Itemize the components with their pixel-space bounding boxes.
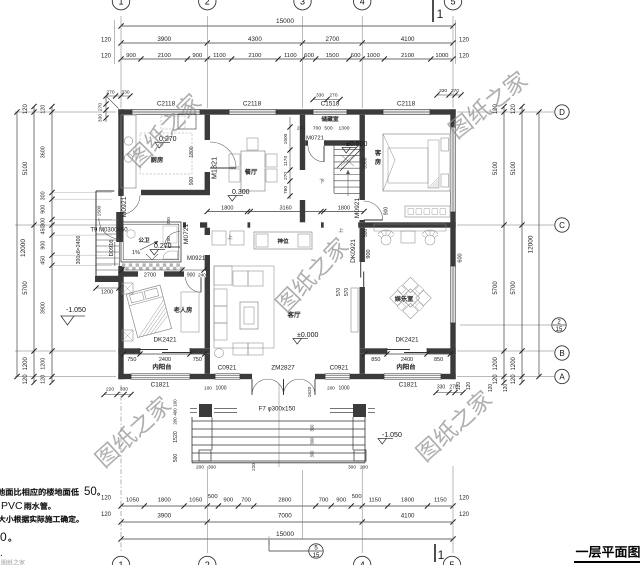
svg-text:50: 50 xyxy=(84,486,97,498)
elevation 0.270 kitchen xyxy=(155,136,177,148)
label DK2421 right xyxy=(395,337,419,344)
svg-text:2100: 2100 xyxy=(158,53,172,59)
svg-text:15000: 15000 xyxy=(276,18,294,25)
svg-text:500: 500 xyxy=(352,494,363,500)
svg-text:1800: 1800 xyxy=(338,205,350,211)
grid extension lines left xyxy=(15,112,116,377)
svg-text:2: 2 xyxy=(205,0,210,6)
bubble column 1 top xyxy=(112,0,129,10)
svg-text:15: 15 xyxy=(313,553,320,559)
slope mark bathroom xyxy=(132,241,158,260)
svg-text:780: 780 xyxy=(283,186,289,194)
svg-text:300: 300 xyxy=(41,218,47,227)
dim total 15000 top xyxy=(118,18,455,29)
svg-text:±0.000: ±0.000 xyxy=(346,141,367,148)
svg-text:120: 120 xyxy=(488,384,494,393)
stair main xyxy=(334,143,361,196)
svg-text:300: 300 xyxy=(348,465,356,471)
svg-text:850: 850 xyxy=(434,357,443,363)
dim steps 300 200 right xyxy=(348,465,368,471)
svg-text:1200: 1200 xyxy=(101,290,113,296)
svg-text:1000: 1000 xyxy=(435,53,449,59)
svg-text:120: 120 xyxy=(101,496,112,502)
dim chain left outer xyxy=(23,104,37,385)
svg-text:120: 120 xyxy=(511,104,517,115)
svg-text:M0721: M0721 xyxy=(306,136,324,142)
svg-text:1000: 1000 xyxy=(215,386,226,392)
bubble detail 5/15 bottom xyxy=(269,540,323,559)
dim total 15000 bottom xyxy=(118,531,455,542)
stair label down xyxy=(320,179,325,184)
door M0921 side entry xyxy=(99,218,120,239)
door DK2421 entertainment slider xyxy=(387,348,427,354)
svg-text:M0721: M0721 xyxy=(183,224,190,244)
window C1518 storage top xyxy=(313,109,347,114)
svg-text:DK2421: DK2421 xyxy=(153,337,177,344)
svg-text:PVC: PVC xyxy=(1,500,23,512)
svg-text:120: 120 xyxy=(101,38,112,44)
svg-text:C0921: C0921 xyxy=(330,365,349,372)
svg-text:1520: 1520 xyxy=(173,431,179,443)
window C2118 kitchen top xyxy=(132,109,200,114)
svg-text:700: 700 xyxy=(241,497,252,503)
svg-text:270: 270 xyxy=(451,88,459,94)
dim 330 270 corner BR xyxy=(433,385,465,396)
door M0721 bathroom xyxy=(165,232,181,248)
svg-text:330: 330 xyxy=(437,385,446,391)
label D0916 stair door xyxy=(109,239,115,256)
svg-text:1100: 1100 xyxy=(284,53,297,59)
grid extension lines bottom xyxy=(121,384,453,553)
wall B line right balcony xyxy=(360,348,456,353)
furniture guest bed wardrobe xyxy=(383,134,450,217)
svg-text:120: 120 xyxy=(101,54,112,60)
svg-text:500: 500 xyxy=(173,454,179,463)
dim entertainment 900 xyxy=(363,229,372,259)
dim door piers xyxy=(204,386,350,392)
wall column axis 4 xyxy=(360,115,365,374)
svg-text:200: 200 xyxy=(196,465,204,471)
svg-text:1170: 1170 xyxy=(283,156,289,167)
svg-text:300: 300 xyxy=(310,424,315,432)
svg-text:2400: 2400 xyxy=(159,357,171,363)
bubble column 5 top xyxy=(444,0,461,10)
svg-text:1150: 1150 xyxy=(434,497,447,503)
svg-text:M0921: M0921 xyxy=(354,198,361,218)
svg-text:1200: 1200 xyxy=(511,356,517,370)
svg-text:3600: 3600 xyxy=(41,146,47,158)
dim chain right inner xyxy=(493,104,506,385)
note line 5 xyxy=(0,548,3,559)
svg-text:15000: 15000 xyxy=(276,531,294,538)
svg-text:1300: 1300 xyxy=(339,126,350,132)
dim row 3900/4300/2700/4100 top xyxy=(101,36,470,46)
svg-text:7000: 7000 xyxy=(278,513,292,520)
svg-text:D: D xyxy=(559,108,565,117)
svg-text:1620: 1620 xyxy=(307,386,313,397)
label C2118 top xyxy=(157,101,176,108)
svg-text:C1518: C1518 xyxy=(321,101,340,108)
grid extension lines right xyxy=(457,112,554,377)
svg-text:3900: 3900 xyxy=(157,36,171,43)
note bottom edge fragment xyxy=(2,559,25,565)
svg-text:900: 900 xyxy=(41,205,47,214)
svg-text:900: 900 xyxy=(366,249,372,258)
svg-text:1800: 1800 xyxy=(401,497,415,503)
svg-text:2: 2 xyxy=(205,560,210,565)
wall exterior right xyxy=(450,109,455,379)
svg-text:270: 270 xyxy=(98,103,104,111)
room label balcony left xyxy=(153,364,171,370)
svg-text:4: 4 xyxy=(360,560,365,565)
svg-text:D0916: D0916 xyxy=(109,239,115,256)
watermark bottom-right xyxy=(414,387,495,463)
wall column axis 2 xyxy=(205,115,210,374)
dim interior 850 2400 850 xyxy=(362,351,453,362)
svg-text:5: 5 xyxy=(450,0,455,6)
svg-text:300: 300 xyxy=(208,465,216,471)
svg-text:1%: 1% xyxy=(132,250,140,256)
svg-text:120: 120 xyxy=(23,374,29,385)
elevation 0.000 living xyxy=(293,332,318,344)
label 300x8 stair xyxy=(76,236,82,265)
svg-text:1800: 1800 xyxy=(189,146,195,157)
fixtures bathroom xyxy=(127,217,178,259)
svg-text:3900: 3900 xyxy=(157,513,171,520)
svg-text:270: 270 xyxy=(329,93,337,99)
window C1821 balcony left xyxy=(131,374,190,379)
svg-text:4: 4 xyxy=(360,0,365,6)
svg-text:±0.000: ±0.000 xyxy=(297,332,318,339)
furniture entertainment table xyxy=(374,224,446,319)
svg-text:M0921: M0921 xyxy=(187,256,206,262)
svg-text:2700: 2700 xyxy=(326,36,340,43)
svg-text:1: 1 xyxy=(437,7,444,21)
svg-text:2100: 2100 xyxy=(401,53,415,59)
window C1821 balcony right xyxy=(384,374,441,379)
svg-text:4100: 4100 xyxy=(401,513,415,520)
svg-text:3900: 3900 xyxy=(41,302,47,314)
svg-text:1100: 1100 xyxy=(213,53,226,59)
svg-text:1050: 1050 xyxy=(126,497,140,503)
svg-text:300x8=2400: 300x8=2400 xyxy=(76,236,82,265)
wall front A line xyxy=(118,374,455,379)
svg-text:2400: 2400 xyxy=(401,357,413,363)
svg-text:400: 400 xyxy=(173,408,178,416)
note line 3 xyxy=(0,515,79,522)
dim row detail bottom xyxy=(101,494,470,509)
svg-text:240: 240 xyxy=(198,272,206,277)
bubble row D right xyxy=(555,105,569,119)
dim interior 1200 stair xyxy=(93,285,121,295)
svg-text:1800: 1800 xyxy=(158,497,172,503)
svg-text:600: 600 xyxy=(304,53,315,59)
svg-text:570: 570 xyxy=(344,288,350,297)
window C2118 entertainment right xyxy=(450,266,455,323)
svg-text:240: 240 xyxy=(297,126,305,132)
watermark center xyxy=(273,235,350,314)
svg-text:200: 200 xyxy=(166,217,171,225)
grid extension lines top xyxy=(114,16,455,108)
svg-text:300: 300 xyxy=(310,437,315,445)
window C2118 guest top xyxy=(383,109,430,114)
dim total 12000 right xyxy=(528,109,542,379)
label DK0921 xyxy=(350,239,357,263)
svg-text:120: 120 xyxy=(493,374,499,385)
label M0721 bath xyxy=(183,224,190,244)
svg-text:900: 900 xyxy=(223,497,234,503)
svg-text:850: 850 xyxy=(371,357,380,363)
svg-text:900: 900 xyxy=(41,241,47,250)
svg-text:330: 330 xyxy=(316,93,324,99)
door ZM2827 main entrance xyxy=(252,379,315,395)
svg-text:B: B xyxy=(559,349,564,358)
svg-text:2700: 2700 xyxy=(144,272,156,278)
section mark 1 top xyxy=(433,0,444,22)
stair bay bottom block xyxy=(95,276,121,282)
svg-text:2100: 2100 xyxy=(248,53,262,59)
svg-text:120: 120 xyxy=(459,38,470,44)
svg-text:270: 270 xyxy=(449,385,458,391)
room label elder xyxy=(174,307,192,313)
svg-text:1: 1 xyxy=(118,0,123,6)
porch columns xyxy=(190,404,375,461)
svg-text:.: . xyxy=(0,548,3,559)
door M0921 corridor-elder xyxy=(186,277,202,293)
dim 120 corner right xyxy=(488,384,509,393)
watermark top-left xyxy=(125,90,203,168)
elevation -1.050 porch xyxy=(378,432,402,444)
svg-text:-1.050: -1.050 xyxy=(382,432,402,439)
landing side entry xyxy=(96,219,119,221)
label C0921 xyxy=(330,365,349,372)
label F7 porch xyxy=(259,406,296,413)
label M1821 xyxy=(210,157,219,179)
bubble column 4 top xyxy=(354,0,371,10)
room label kitchen xyxy=(151,157,163,163)
dim 220 330 corner BL xyxy=(101,387,133,398)
svg-text:3160: 3160 xyxy=(279,205,291,211)
furniture living sofa xyxy=(212,231,358,358)
svg-text:M0921: M0921 xyxy=(121,196,128,217)
svg-text:200: 200 xyxy=(360,465,368,471)
svg-text:330: 330 xyxy=(120,387,128,393)
wall storage bottom xyxy=(305,140,359,145)
svg-text:900: 900 xyxy=(189,177,195,186)
title first floor plan xyxy=(574,546,640,562)
svg-text:270: 270 xyxy=(106,90,114,96)
svg-text:2800: 2800 xyxy=(278,497,292,503)
svg-text:5100: 5100 xyxy=(23,161,29,175)
svg-text:0: 0 xyxy=(0,530,7,544)
stair side bay treads xyxy=(96,234,119,276)
svg-text:900: 900 xyxy=(126,53,137,59)
elevation -1.050 left xyxy=(61,307,86,325)
wall kitchen bottom xyxy=(118,190,210,195)
dim 330 270 top storage xyxy=(310,93,342,103)
dim 330 270 corner TR xyxy=(434,88,463,98)
tile strip bathroom xyxy=(122,263,183,270)
bubble row B right xyxy=(555,346,569,360)
svg-text:300: 300 xyxy=(41,191,47,200)
svg-text:1: 1 xyxy=(118,560,123,565)
svg-text:1050: 1050 xyxy=(189,497,203,503)
svg-text:12000: 12000 xyxy=(20,239,27,257)
svg-text:C: C xyxy=(559,221,565,230)
stair bay outer wall left xyxy=(96,191,121,278)
svg-text:120: 120 xyxy=(23,104,29,115)
svg-text:330: 330 xyxy=(439,88,447,94)
svg-text:1150: 1150 xyxy=(369,497,382,503)
note line 4 xyxy=(0,530,11,544)
svg-text:C1821: C1821 xyxy=(151,382,170,389)
watermark top-right xyxy=(446,68,530,140)
svg-text:220: 220 xyxy=(106,387,114,393)
door hall kitchen xyxy=(121,195,140,214)
svg-text:700: 700 xyxy=(319,497,330,503)
svg-text:600: 600 xyxy=(458,253,464,262)
svg-text:1200: 1200 xyxy=(23,356,29,370)
label C1821 xyxy=(399,382,418,389)
svg-text:120: 120 xyxy=(101,512,112,518)
svg-text:220: 220 xyxy=(251,463,256,471)
dim chain right outer xyxy=(511,104,524,385)
svg-text:270: 270 xyxy=(283,172,289,180)
svg-text:15: 15 xyxy=(556,327,563,333)
detail line 2-15 right xyxy=(460,324,551,326)
svg-text:750: 750 xyxy=(193,357,202,363)
label ZM2827 xyxy=(271,365,295,372)
svg-text:330: 330 xyxy=(121,90,129,96)
label C1821 xyxy=(151,382,170,389)
svg-text:450: 450 xyxy=(41,256,47,265)
window C2118 dining top xyxy=(229,109,276,114)
room label entertainment xyxy=(395,296,413,302)
room label bath xyxy=(139,237,150,242)
section mark 1 bottom xyxy=(435,544,445,562)
bubble detail 2/15 right xyxy=(552,318,566,333)
svg-text:750: 750 xyxy=(127,357,136,363)
svg-text:C0921: C0921 xyxy=(218,365,237,372)
bubble column 2 bottom xyxy=(199,556,216,565)
label M0721 storage xyxy=(306,136,324,142)
label C2118 top xyxy=(243,101,262,108)
svg-text:700: 700 xyxy=(313,126,321,132)
note line 2 xyxy=(1,500,51,512)
svg-text:C2118: C2118 xyxy=(243,101,262,108)
door M0721 storage xyxy=(308,146,324,162)
dim interior C wall row xyxy=(205,205,367,214)
svg-text:1200: 1200 xyxy=(41,358,47,370)
bubble column 2 top xyxy=(199,0,216,10)
svg-text:900: 900 xyxy=(187,272,196,278)
svg-text:5700: 5700 xyxy=(493,281,499,295)
window C2118 guest right xyxy=(450,127,455,212)
wall column axis 3 xyxy=(300,115,305,223)
entrance steps xyxy=(192,417,365,463)
svg-text:ZM2827: ZM2827 xyxy=(271,365,295,372)
wall B line left balcony xyxy=(118,348,210,353)
svg-text:1500: 1500 xyxy=(97,205,103,216)
svg-text:T9 M0300+50: T9 M0300+50 xyxy=(90,228,128,234)
svg-text:5: 5 xyxy=(449,560,454,565)
svg-text:5700: 5700 xyxy=(511,281,517,295)
wall elder room top xyxy=(118,271,210,276)
svg-text:900: 900 xyxy=(384,207,390,216)
dim 1620 xyxy=(251,386,315,471)
wall bathroom partition box xyxy=(121,222,181,262)
svg-text:120: 120 xyxy=(511,374,517,385)
svg-text:F7 φ300x150: F7 φ300x150 xyxy=(259,406,296,413)
dim kitchen interior xyxy=(189,146,195,185)
svg-text:4100: 4100 xyxy=(401,36,415,43)
svg-text:C2118: C2118 xyxy=(157,101,176,108)
door M1821 kitchen-dining xyxy=(210,142,236,168)
svg-text:5100: 5100 xyxy=(493,161,499,175)
bubble column 4 bottom xyxy=(354,556,371,565)
dim porch 1520 xyxy=(173,399,180,462)
svg-text:600: 600 xyxy=(351,53,362,59)
bubble row A right xyxy=(555,369,569,383)
dim storage row xyxy=(297,126,350,132)
svg-text:1000: 1000 xyxy=(338,386,349,392)
svg-text:5100: 5100 xyxy=(511,161,517,175)
door M0921 guest xyxy=(364,201,383,220)
dim guest interior xyxy=(363,157,369,168)
wall C line xyxy=(183,222,456,227)
room label dining xyxy=(245,169,257,175)
svg-text:0.270: 0.270 xyxy=(154,243,172,250)
svg-text:500: 500 xyxy=(208,494,219,500)
dim interior 2700 row xyxy=(119,267,206,278)
window C0921 porch right xyxy=(325,374,350,379)
svg-text:3: 3 xyxy=(300,0,305,6)
room label shrine xyxy=(278,238,289,243)
elevation 0.000 storage xyxy=(342,141,367,153)
label M0921 side xyxy=(121,196,128,217)
label C0921 xyxy=(218,365,237,372)
room label storage xyxy=(321,116,338,121)
svg-text:120: 120 xyxy=(41,105,47,114)
svg-text:0.300: 0.300 xyxy=(232,189,250,196)
dim dining interior xyxy=(283,117,293,199)
label T9 M0300 xyxy=(90,228,128,234)
door DK0921 living-entertainment slider xyxy=(361,262,364,287)
svg-text:120: 120 xyxy=(503,384,509,393)
wall exterior top xyxy=(118,109,455,114)
svg-text:1500: 1500 xyxy=(283,133,289,144)
svg-text:120: 120 xyxy=(41,375,47,384)
room label living xyxy=(288,311,301,317)
svg-text:C1821: C1821 xyxy=(399,382,418,389)
svg-text:-1.050: -1.050 xyxy=(66,307,86,314)
door D0916 opening xyxy=(115,242,120,266)
room label guest xyxy=(375,150,381,165)
bubble column 1 bottom xyxy=(112,556,129,565)
minor extension lines left xyxy=(52,193,112,266)
svg-text:1500: 1500 xyxy=(326,53,340,59)
svg-text:500: 500 xyxy=(324,126,332,132)
svg-text:450: 450 xyxy=(41,226,47,235)
window C0921 porch left xyxy=(215,374,240,379)
svg-text:100: 100 xyxy=(204,386,212,391)
note line 1 xyxy=(0,486,100,498)
label M0921 corridor xyxy=(187,256,206,262)
door DK2421 elder slider xyxy=(140,348,190,354)
dim row 3900/7000/4100 bottom xyxy=(101,512,470,525)
svg-text:DK0921: DK0921 xyxy=(350,239,357,263)
label C2118 top xyxy=(397,101,416,108)
